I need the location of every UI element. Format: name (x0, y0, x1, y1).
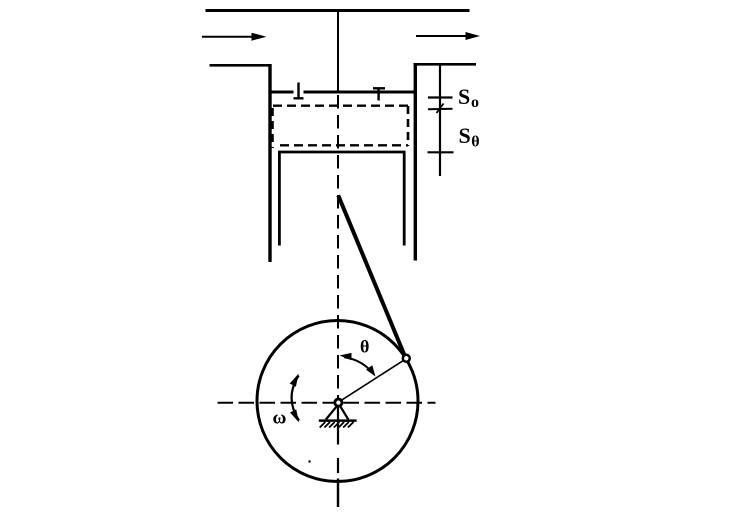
ground hatching (320, 422, 354, 428)
connecting rod (338, 195, 404, 354)
theta arc arrowhead left (339, 353, 351, 360)
piston crown line (TDC) (272, 91, 415, 94)
crank pin (403, 355, 410, 362)
dimension tick top (428, 96, 453, 98)
valve mark right (373, 88, 385, 100)
flow arrow left (202, 33, 267, 41)
svg-text:S: S (459, 123, 471, 148)
center axis vertical solid top (337, 9, 339, 92)
piston dashed position left edge (271, 108, 274, 148)
dimension tick middle (428, 108, 453, 111)
theta arc (344, 357, 372, 372)
label S_theta (459, 123, 480, 151)
support triangle right side (340, 406, 348, 419)
svg-text:o: o (471, 94, 479, 111)
piston dashed position right edge (407, 106, 410, 146)
top duct wall line (206, 9, 470, 12)
cylinder wall left (268, 64, 271, 262)
cylinder wall right (414, 63, 417, 261)
svg-text:θ: θ (360, 337, 369, 357)
pivot bearing (335, 399, 342, 406)
svg-text:S: S (458, 84, 470, 109)
duct bottom wall left (210, 64, 272, 67)
crank circle (257, 321, 418, 482)
ground line (319, 419, 357, 422)
svg-text:ω: ω (273, 408, 287, 429)
label S0 (458, 84, 479, 111)
piston dashed position bottom (280, 144, 408, 146)
valve mark left (294, 83, 304, 99)
theta arc arrowhead right (366, 365, 375, 376)
scan speck (308, 460, 310, 462)
piston skirt left side (278, 152, 281, 246)
dimension tick bottom (428, 151, 454, 153)
duct bottom wall right (414, 63, 477, 66)
omega arrow arc (292, 376, 299, 421)
support triangle left side (326, 406, 337, 419)
piston skirt right side (403, 152, 406, 246)
crank centerline horizontal dashed (218, 402, 436, 404)
center axis vertical dashed (337, 95, 339, 398)
flow arrow right (416, 32, 480, 40)
svg-text:θ: θ (471, 134, 479, 151)
dimension line vertical (439, 64, 441, 176)
center axis vertical solid bottom (337, 479, 339, 508)
omega arrowhead top (290, 374, 299, 387)
piston skirt top (278, 151, 406, 154)
omega arrowhead bottom (290, 409, 299, 422)
crank arm (339, 360, 405, 402)
piston dashed position top (273, 104, 408, 106)
